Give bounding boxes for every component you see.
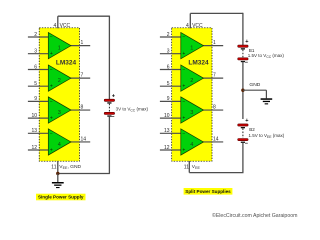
svg-text:−: − (50, 99, 53, 105)
svg-text:11: 11 (184, 164, 189, 170)
svg-text:GND: GND (249, 82, 260, 88)
svg-text:1: 1 (81, 40, 84, 46)
svg-text:8: 8 (81, 104, 84, 110)
svg-text:12: 12 (164, 145, 170, 151)
svg-text:−: − (245, 141, 249, 147)
svg-text:14: 14 (81, 136, 87, 142)
svg-text:−: − (182, 67, 185, 73)
svg-text:14: 14 (213, 136, 219, 142)
svg-text:+: + (182, 84, 185, 90)
svg-text:10: 10 (31, 113, 37, 119)
svg-text:−: − (111, 115, 115, 121)
svg-text:−: − (182, 131, 185, 137)
svg-text:11: 11 (51, 164, 56, 170)
svg-text:2: 2 (58, 78, 61, 84)
svg-text:6: 6 (34, 64, 37, 70)
svg-text:−: − (50, 131, 53, 137)
svg-text:VCC: VCC (192, 23, 203, 29)
svg-text:3: 3 (34, 49, 37, 55)
svg-text:10: 10 (164, 113, 170, 119)
svg-text:3: 3 (167, 49, 170, 55)
svg-text:9: 9 (34, 96, 37, 102)
svg-text:−: − (182, 35, 185, 41)
svg-text:+: + (50, 116, 53, 122)
svg-text:9: 9 (167, 96, 170, 102)
svg-text:7: 7 (81, 73, 84, 79)
svg-text:LM324: LM324 (188, 59, 209, 66)
svg-text:+: + (50, 148, 53, 154)
svg-text:VEE: VEE (192, 164, 201, 170)
svg-text:LM324: LM324 (56, 59, 77, 66)
svg-text:5: 5 (167, 81, 170, 87)
svg-text:B2: B2 (249, 127, 255, 132)
svg-text:1: 1 (190, 46, 193, 52)
svg-text:1.5V to VEE (max): 1.5V to VEE (max) (249, 133, 285, 139)
svg-text:4: 4 (54, 23, 57, 29)
svg-text:−: − (50, 67, 53, 73)
svg-text:2: 2 (190, 78, 193, 84)
svg-text:6: 6 (167, 64, 170, 70)
svg-text:−: − (182, 99, 185, 105)
svg-text:+: + (245, 39, 249, 45)
svg-text:8: 8 (213, 104, 216, 110)
svg-text:+: + (245, 118, 249, 124)
svg-text:−: − (50, 35, 53, 41)
svg-text:4: 4 (190, 142, 193, 148)
svg-text:+: + (182, 51, 185, 57)
svg-text:2: 2 (167, 32, 170, 38)
svg-text:+: + (182, 148, 185, 154)
svg-text:+: + (182, 116, 185, 122)
svg-text:VCC: VCC (60, 23, 71, 29)
svg-text:©ElecCircuit.com Apichet Garai: ©ElecCircuit.com Apichet Garaipoom (212, 212, 297, 219)
svg-text:1.5V to VCC (max): 1.5V to VCC (max) (248, 53, 285, 59)
svg-text:3V to VCC (max): 3V to VCC (max) (116, 106, 149, 112)
svg-text:7: 7 (213, 73, 216, 79)
svg-text:4: 4 (58, 142, 61, 148)
svg-text:VEE, GND: VEE, GND (59, 164, 81, 170)
svg-text:3: 3 (58, 110, 61, 116)
svg-text:Single Power Supply: Single Power Supply (38, 195, 84, 200)
svg-text:13: 13 (164, 128, 170, 134)
svg-text:+: + (112, 93, 116, 99)
svg-text:1: 1 (58, 46, 61, 52)
svg-text:Split Power Supplies: Split Power Supplies (185, 189, 231, 194)
svg-text:13: 13 (31, 128, 37, 134)
svg-text:5: 5 (34, 81, 37, 87)
svg-text:12: 12 (31, 145, 37, 151)
svg-text:+: + (50, 51, 53, 57)
svg-text:1: 1 (213, 40, 216, 46)
svg-text:−: − (245, 60, 249, 66)
svg-text:3: 3 (190, 110, 193, 116)
svg-text:4: 4 (186, 23, 189, 29)
svg-text:2: 2 (34, 32, 37, 38)
svg-text:+: + (50, 84, 53, 90)
